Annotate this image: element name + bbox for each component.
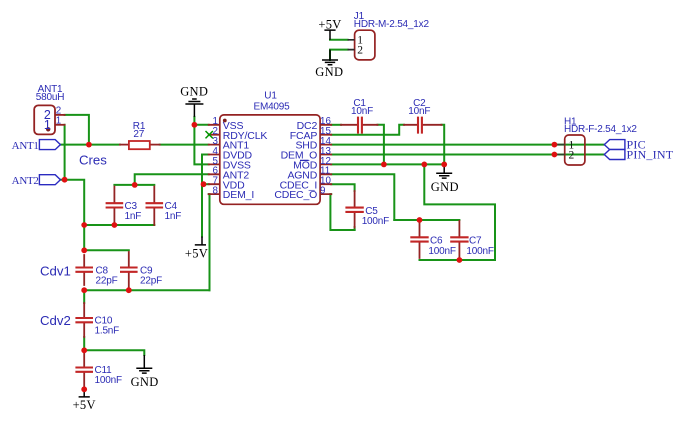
wire AGND to C6 C7 top (331, 174, 394, 220)
svg-text:HDR-F-2.54_1x2: HDR-F-2.54_1x2 (564, 124, 637, 135)
label U1 MOD overline (300, 159, 309, 161)
svg-text:GND: GND (180, 85, 208, 99)
COMPONENT LEADS (55, 115, 460, 389)
no-connect X on U1 pin2 (206, 131, 213, 138)
svg-text:PIN_INT: PIN_INT (627, 148, 674, 162)
svg-text:1nF: 1nF (125, 211, 142, 222)
ground GND bottom (136, 355, 152, 373)
wire DVDD VDD to +5V mid (202, 155, 209, 237)
wire inductor pin2 to Cres node (65, 115, 89, 145)
svg-text:U1: U1 (264, 90, 277, 101)
connector J1 pin stubs (348, 40, 355, 50)
svg-text:1: 1 (44, 118, 51, 132)
resistor R1 right lead (150, 144, 160, 146)
wire SHD row to PIC flag (331, 144, 604, 146)
wire VDD pin7 stub join (202, 183, 209, 185)
ground GND above U1 rotated (185, 99, 203, 117)
svg-text:9: 9 (320, 186, 325, 197)
wire C2 right to GND rail (442, 125, 445, 165)
svg-text:580uH: 580uH (36, 92, 64, 103)
svg-text:10nF: 10nF (351, 106, 373, 117)
node C6 C7 return junction (421, 162, 427, 168)
wire C10 bottom node (83, 337, 85, 350)
capacitor C6 plates (410, 237, 428, 241)
inductor ANT1 body (34, 105, 55, 134)
capacitor C8 leads (83, 255, 85, 285)
svg-text:100nF: 100nF (428, 246, 455, 257)
hierarchical label PIC flag (604, 140, 625, 150)
capacitor C10 plates (75, 318, 93, 322)
svg-text:100nF: 100nF (362, 216, 389, 227)
hierarchical label PIN_INT flag (604, 150, 625, 160)
svg-text:Cdv1: Cdv1 (40, 264, 71, 279)
wire inductor pin1 down to ANT2 node (64, 125, 66, 180)
svg-text:8: 8 (213, 186, 219, 197)
capacitor C9 plates (120, 268, 138, 272)
wire C6 C7 top rail (394, 219, 459, 221)
wire C10 node to GND bottom (84, 350, 144, 355)
inductor ANT1 pin1 stub (55, 124, 65, 126)
svg-text:EM4095: EM4095 (253, 101, 290, 112)
wire C8 C9 bottom rail (84, 289, 209, 291)
connector J1 body (355, 30, 375, 60)
node C10 bottom junction (81, 347, 87, 353)
wire R1 to U1 pin3 (160, 144, 209, 146)
connector H1 body (565, 135, 585, 165)
wire left rail to Cdv1 (83, 225, 85, 250)
svg-text:DEM_I: DEM_I (223, 189, 254, 201)
capacitor C4 leads (153, 187, 155, 226)
node C7 bottom junction (457, 257, 463, 263)
node GND rail symbol junction (441, 162, 447, 168)
wire ANT2 node down left rail (65, 180, 85, 225)
svg-text:22pF: 22pF (96, 275, 118, 286)
svg-text:ANT1: ANT1 (12, 140, 39, 152)
svg-text:1.5nF: 1.5nF (95, 325, 120, 336)
label U1 right pin numbers (320, 116, 331, 196)
svg-text:2: 2 (357, 45, 363, 57)
svg-text:C6: C6 (430, 236, 443, 247)
capacitor C2 plates (418, 117, 422, 134)
svg-text:HDR-M-2.54_1x2: HDR-M-2.54_1x2 (354, 19, 430, 30)
wire CDEC_O to C5 bottom (330, 194, 354, 230)
wire ANT1 net (60, 144, 120, 146)
capacitor C1 leads (341, 124, 378, 126)
label U1 left pin numbers (213, 116, 219, 196)
node H1 pin1 junction (552, 142, 558, 148)
node C9 bottom junction (126, 287, 132, 293)
svg-text:1: 1 (56, 116, 61, 127)
svg-text:GND: GND (131, 375, 159, 389)
svg-text:22pF: 22pF (140, 275, 162, 286)
svg-text:GND: GND (431, 180, 459, 194)
svg-text:ANT2: ANT2 (12, 175, 39, 187)
wire VSS node to DVSS pin5 (194, 125, 208, 165)
svg-text:CDEC_O: CDEC_O (274, 189, 317, 201)
wire C6 C7 return to GND rail (424, 164, 495, 260)
capacitor C10 leads (83, 303, 85, 337)
node C8 bottom junction (81, 287, 87, 293)
capacitor C11 leads (83, 352, 85, 389)
svg-text:Cres: Cres (79, 153, 107, 168)
capacitor C3 plates (106, 203, 124, 207)
node C6 top junction (417, 217, 423, 223)
capacitor C5 plates (345, 208, 363, 212)
U1 left pin stubs (209, 125, 220, 194)
wire U1 pin15 to C2 (331, 125, 404, 135)
resistor R1 body (129, 141, 150, 149)
svg-text:Cdv2: Cdv2 (40, 313, 71, 328)
capacitor C7 leads (458, 221, 460, 260)
power +5V mid (195, 237, 206, 245)
power +5V top (324, 30, 335, 40)
capacitor C5 leads (354, 191, 356, 228)
node Cdv1 top junction (81, 247, 87, 253)
capacitor C9 leads (128, 252, 130, 290)
wire C1 right to GND rail (378, 125, 384, 165)
svg-text:C7: C7 (469, 236, 482, 247)
U1 right pin stubs (320, 125, 331, 194)
wire MOD GND rail (331, 163, 444, 165)
wire C3 C4 top rail (114, 184, 154, 186)
wire C8 C9 top rail (84, 249, 129, 251)
svg-text:+5V: +5V (318, 18, 341, 32)
wire DEM_I vertical (208, 194, 211, 290)
node H1 pin2 junction (552, 152, 558, 158)
node left rail C3 junction (81, 222, 87, 228)
wire U1 pin6 to C3 C4 top rail (135, 174, 209, 185)
wire C3 C4 bottom rail (84, 224, 154, 226)
hierarchical label ANT1 flag (39, 140, 60, 150)
wire J1 pin2 to GND (330, 50, 348, 60)
svg-text:27: 27 (133, 129, 144, 140)
wire C10 top lead green part (83, 290, 85, 303)
inductor ANT1 pin2 stub (55, 114, 65, 116)
wire DEM_O row to PIN_INT flag (331, 154, 604, 156)
wire C6 C7 bottom rail (420, 259, 496, 261)
node C1 GND rail junction (381, 162, 387, 168)
wire CDEC_I to C5 (331, 184, 354, 191)
svg-text:2: 2 (569, 150, 575, 162)
node C3 bottom junction (112, 222, 118, 228)
node ANT2 junction (62, 177, 68, 183)
label U1 left pin names (223, 120, 268, 201)
connector H1 pin stubs (554, 145, 564, 155)
wire C5 bottom lead join (354, 227, 356, 230)
wire U1 pin16 to C1 (331, 124, 341, 126)
svg-text:100nF: 100nF (466, 246, 493, 257)
power +5V bottom (79, 389, 90, 397)
wire +5V to J1 pin1 (330, 39, 348, 41)
svg-text:100nF: 100nF (95, 375, 122, 386)
op-amp U1 body EM4095 (220, 115, 320, 204)
node VSS GND junction (192, 122, 198, 128)
capacitor C7 plates (450, 237, 468, 241)
svg-text:1nF: 1nF (165, 211, 182, 222)
svg-text:GND: GND (315, 65, 343, 79)
ground GND mid right (436, 164, 452, 178)
U1 pin1 origin dot (223, 119, 227, 123)
capacitor C11 plates (75, 368, 93, 372)
ground GND top-left J1 (322, 50, 338, 65)
hierarchical label ANT2 flag (39, 175, 60, 185)
svg-text:+5V: +5V (73, 398, 96, 412)
capacitor C1 plates (358, 117, 362, 134)
capacitor C8 plates (75, 268, 93, 272)
wire ANT2 flag to node (60, 179, 64, 181)
node C3 C4 top junction (132, 182, 138, 188)
capacitor C3 leads (113, 187, 115, 226)
svg-text:10nF: 10nF (408, 106, 430, 117)
capacitor C2 leads (404, 124, 442, 126)
resistor R1 left lead (120, 144, 129, 146)
node Cres junction (86, 142, 92, 148)
wire GND top to VSS pin1 (194, 117, 208, 125)
node C11 bottom junction (81, 386, 87, 392)
node VDD +5V junction (201, 181, 207, 187)
inductor ANT1 origin dot (46, 127, 50, 131)
label U1 right pin names (274, 120, 317, 201)
svg-text:+5V: +5V (185, 246, 208, 260)
capacitor C4 plates (146, 203, 164, 207)
capacitor C6 leads (419, 221, 421, 258)
